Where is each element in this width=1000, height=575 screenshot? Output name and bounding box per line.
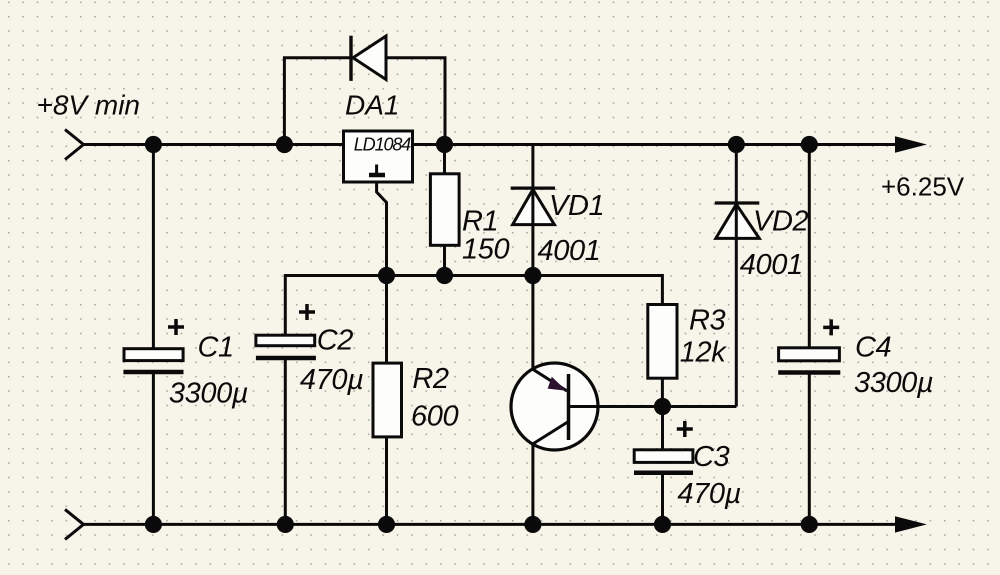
svg-text:470µ: 470µ bbox=[677, 478, 741, 510]
svg-text:150: 150 bbox=[462, 234, 509, 266]
svg-text:C3: C3 bbox=[693, 441, 730, 473]
svg-text:600: 600 bbox=[411, 400, 458, 432]
svg-text:R3: R3 bbox=[689, 305, 726, 337]
svg-text:+8V min: +8V min bbox=[37, 90, 141, 121]
svg-text:DA1: DA1 bbox=[345, 90, 399, 121]
svg-text:12k: 12k bbox=[680, 337, 727, 369]
svg-text:R2: R2 bbox=[412, 363, 449, 395]
svg-text:C1: C1 bbox=[198, 332, 234, 364]
svg-text:3300µ: 3300µ bbox=[169, 378, 248, 410]
svg-text:4001: 4001 bbox=[740, 249, 803, 281]
svg-text:VD2: VD2 bbox=[753, 205, 808, 237]
svg-text:4001: 4001 bbox=[538, 235, 601, 267]
svg-text:C4: C4 bbox=[855, 332, 892, 364]
svg-text:+6.25V: +6.25V bbox=[881, 172, 965, 202]
svg-text:470µ: 470µ bbox=[300, 364, 364, 396]
svg-text:3300µ: 3300µ bbox=[854, 367, 933, 399]
svg-text:LD1084: LD1084 bbox=[354, 135, 412, 155]
svg-text:VD1: VD1 bbox=[549, 190, 604, 222]
svg-text:C2: C2 bbox=[317, 325, 354, 357]
